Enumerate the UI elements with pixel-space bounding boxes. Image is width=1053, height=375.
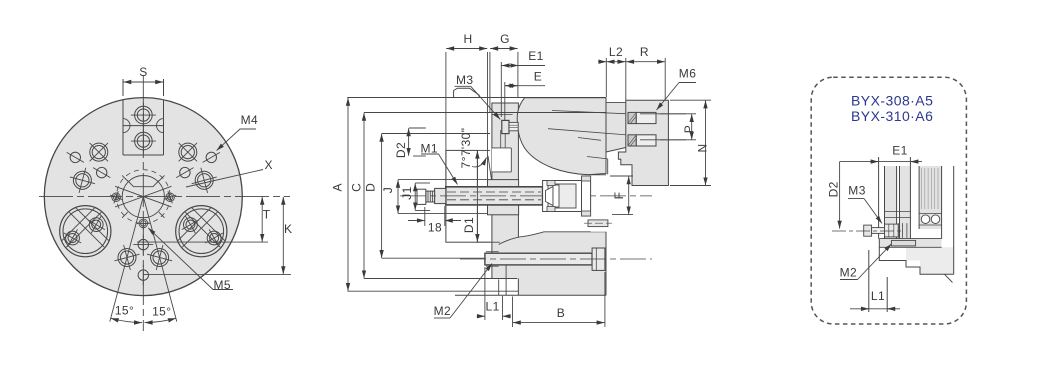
svg-text:R: R <box>640 45 649 59</box>
svg-text:7°7'30": 7°7'30" <box>459 128 473 169</box>
svg-text:L1: L1 <box>871 289 885 303</box>
svg-text:15°: 15° <box>152 305 171 319</box>
svg-text:M2: M2 <box>840 266 857 280</box>
svg-text:M3: M3 <box>848 184 865 198</box>
svg-text:B: B <box>557 306 565 320</box>
svg-text:J: J <box>381 187 395 193</box>
svg-text:X: X <box>265 158 273 172</box>
svg-text:G: G <box>500 32 510 46</box>
svg-text:P: P <box>682 125 696 133</box>
svg-text:D1: D1 <box>462 217 476 233</box>
svg-text:D2: D2 <box>394 142 408 158</box>
svg-text:18: 18 <box>428 221 442 235</box>
svg-text:L1: L1 <box>486 300 500 314</box>
svg-text:E1: E1 <box>528 49 543 63</box>
svg-text:M5: M5 <box>214 278 231 292</box>
svg-text:E: E <box>534 70 542 84</box>
svg-text:A: A <box>331 183 345 191</box>
svg-text:L2: L2 <box>609 45 623 59</box>
svg-text:BYX‑310·A6: BYX‑310·A6 <box>851 108 933 124</box>
svg-text:D: D <box>364 183 378 192</box>
svg-text:D2: D2 <box>827 181 841 197</box>
svg-text:F: F <box>612 192 626 200</box>
svg-text:S: S <box>139 65 147 79</box>
svg-text:N: N <box>696 143 710 152</box>
svg-text:K: K <box>284 222 292 236</box>
svg-text:M3: M3 <box>456 73 473 87</box>
svg-text:T: T <box>263 208 271 222</box>
svg-text:M6: M6 <box>679 67 696 81</box>
svg-text:M2: M2 <box>434 304 451 318</box>
svg-text:15°: 15° <box>115 304 134 318</box>
svg-text:M4: M4 <box>241 113 258 127</box>
svg-text:M1: M1 <box>421 142 438 156</box>
svg-text:E1: E1 <box>892 144 907 158</box>
svg-text:J1: J1 <box>400 186 414 199</box>
svg-text:BYX‑308·A5: BYX‑308·A5 <box>851 93 933 109</box>
svg-text:H: H <box>463 32 472 46</box>
svg-text:C: C <box>349 183 363 192</box>
